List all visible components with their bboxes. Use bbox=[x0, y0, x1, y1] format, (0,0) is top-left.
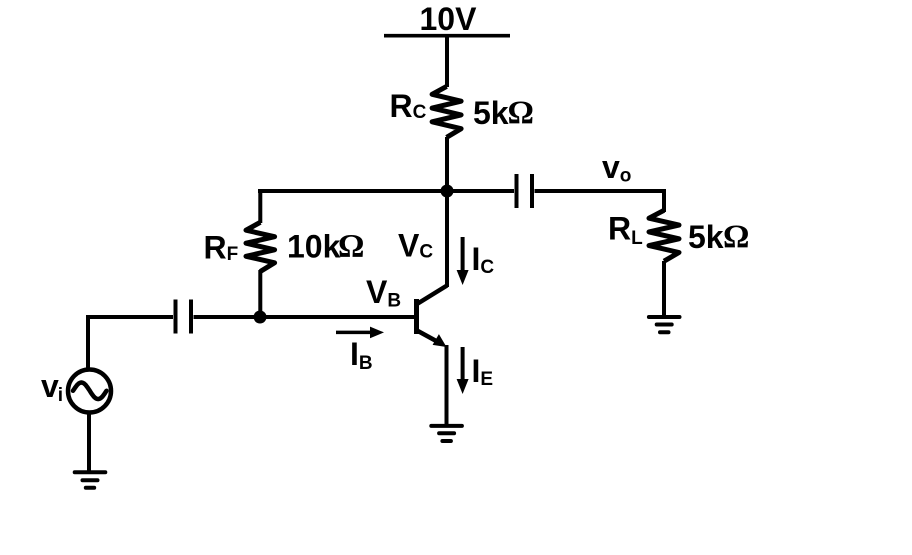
svg-text:Ω: Ω bbox=[508, 95, 534, 131]
wire RL bottom lead bbox=[662, 261, 666, 317]
wire source to ground bbox=[87, 413, 91, 472]
wire emitter bbox=[445, 345, 449, 425]
wire C2 to RL corner bbox=[535, 189, 665, 212]
arrow IC bbox=[461, 237, 465, 272]
transistor Q1 collector diagonal bbox=[417, 286, 447, 305]
svg-text:10V: 10V bbox=[420, 1, 478, 37]
source vi sine bbox=[73, 383, 107, 400]
svg-text:Ω: Ω bbox=[723, 219, 749, 255]
svg-text:vo: vo bbox=[602, 149, 631, 187]
resistor RF bbox=[246, 222, 275, 271]
resistor RC bbox=[432, 86, 461, 137]
ground under vi bbox=[75, 472, 106, 488]
wire base node to transistor base bbox=[260, 315, 414, 319]
svg-text:RL: RL bbox=[608, 211, 643, 250]
svg-text:5k: 5k bbox=[688, 219, 724, 255]
svg-text:IC: IC bbox=[472, 241, 495, 278]
capacitor C2 output bbox=[517, 174, 533, 208]
resistor RL bbox=[649, 210, 679, 261]
capacitor C1 input bbox=[176, 300, 192, 334]
wire collector bbox=[445, 189, 449, 287]
wire node to output capacitor bbox=[447, 189, 514, 193]
svg-text:10k: 10k bbox=[287, 229, 341, 265]
node base junction bbox=[254, 311, 267, 324]
supply rail bar bbox=[384, 34, 510, 38]
svg-text:RF: RF bbox=[204, 230, 239, 266]
svg-text:vi: vi bbox=[41, 368, 63, 406]
arrow IE bbox=[461, 347, 465, 381]
ground under emitter bbox=[431, 426, 462, 441]
transistor Q1 emitter diagonal with arrow bbox=[417, 331, 441, 344]
arrow IB bbox=[336, 331, 372, 335]
svg-text:VC: VC bbox=[398, 228, 433, 264]
wire RC to collector node bbox=[445, 137, 449, 191]
svg-text:RC: RC bbox=[390, 88, 427, 124]
node collector junction bbox=[441, 185, 454, 198]
svg-text:IB: IB bbox=[350, 336, 373, 374]
svg-text:Ω: Ω bbox=[338, 229, 364, 265]
svg-text:VB: VB bbox=[366, 274, 401, 312]
wire source riser bbox=[86, 315, 90, 369]
wire RF top lead bbox=[258, 189, 262, 223]
wire source to input capacitor bbox=[88, 315, 173, 319]
wire C1 to base node bbox=[194, 315, 261, 319]
ground under RL bbox=[649, 317, 680, 332]
svg-text:5k: 5k bbox=[473, 95, 509, 131]
svg-text:IE: IE bbox=[472, 353, 494, 390]
transistor Q1 base bar bbox=[414, 299, 419, 334]
wire feedback top bbox=[258, 189, 447, 193]
source vi circle bbox=[68, 370, 111, 413]
wire supply to RC bbox=[445, 36, 449, 88]
wire RF bottom lead bbox=[258, 270, 262, 317]
